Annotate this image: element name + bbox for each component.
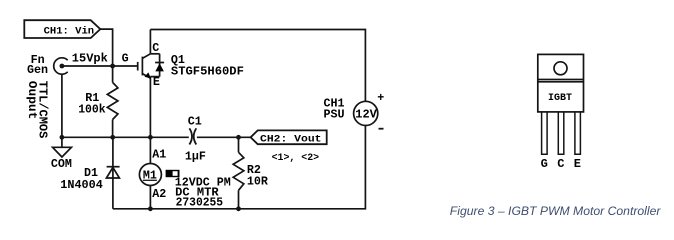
probe flag CH1: Vin — [24, 20, 100, 38]
capacitor C1 — [189, 128, 192, 144]
svg-text:2730255: 2730255 — [176, 195, 224, 209]
svg-text:CH2: Vout: CH2: Vout — [260, 134, 322, 146]
svg-text:PSU: PSU — [324, 107, 345, 121]
IGBT legs — [542, 112, 581, 154]
wire: Q1 emitter lead down to rail — [149, 77, 151, 138]
wire: CH1 flag tip to gate junction — [100, 29, 112, 66]
resistor R1 zigzag — [107, 82, 118, 119]
svg-text:G: G — [541, 157, 548, 171]
svg-text:CH1: Vin: CH1: Vin — [44, 26, 95, 38]
svg-text:15Vpk: 15Vpk — [72, 52, 108, 66]
transistor Q1 (IGBT) — [138, 54, 164, 78]
svg-text:C: C — [557, 157, 564, 171]
svg-text:IGBT: IGBT — [548, 92, 572, 103]
resistor R2 zigzag — [233, 152, 244, 190]
svg-text:A2: A2 — [152, 187, 166, 201]
node gate junction — [110, 64, 115, 69]
ground COM — [53, 147, 72, 157]
node R2 bottom junction — [236, 206, 241, 211]
wire: D1 branch vertical — [112, 137, 114, 209]
wire: top rail from Q1 collector to right rail down to PSU + — [150, 30, 365, 102]
svg-text:Gen: Gen — [27, 63, 48, 77]
svg-text:+: + — [377, 91, 384, 105]
svg-text:E: E — [153, 75, 160, 89]
node R1/D1 junction — [110, 135, 115, 140]
wire: Q1 collector lead — [149, 30, 151, 54]
wire: emitter rail right of C1 to CH2 flag tip — [197, 136, 251, 138]
svg-text:COM: COM — [51, 157, 72, 171]
wire: R1 bottom lead — [112, 120, 114, 138]
node emitter/M1 junction — [148, 135, 153, 140]
svg-text:C: C — [152, 41, 159, 55]
svg-text:1µF: 1µF — [185, 150, 206, 164]
wire: R2 top lead — [238, 137, 240, 152]
wire: PSU - down to bottom rail, bottom rail to left — [113, 126, 366, 209]
IGBT package TO-220 — [538, 54, 584, 112]
wire: R2 bottom lead — [238, 190, 240, 209]
svg-text:G: G — [122, 52, 129, 66]
probe flag CH2: Vout — [251, 130, 327, 144]
motor M1 — [139, 164, 161, 186]
function generator Fn Gen — [54, 58, 68, 74]
svg-text:A1: A1 — [152, 148, 166, 162]
svg-text:STGF5H60DF: STGF5H60DF — [171, 65, 244, 79]
wire: emitter rail left of C1 — [62, 136, 189, 138]
motor icon — [166, 170, 180, 177]
svg-text:E: E — [574, 157, 581, 171]
svg-text:1N4004: 1N4004 — [60, 178, 103, 192]
svg-text:10R: 10R — [247, 175, 268, 189]
node C1/R2 junction — [236, 135, 241, 140]
wire: Fn Gen down to COM — [61, 74, 63, 147]
node COM junction — [60, 135, 65, 140]
svg-text:C1: C1 — [188, 114, 202, 128]
svg-text:M1: M1 — [143, 169, 157, 183]
wire: M1 top lead — [149, 137, 151, 163]
wire: R1 top lead — [112, 66, 114, 82]
caption — [450, 204, 661, 218]
diode D1 — [107, 166, 120, 168]
node M1 bottom junction — [148, 206, 153, 211]
minus sign — [379, 128, 384, 130]
svg-text:100k: 100k — [78, 102, 106, 116]
svg-text:12V: 12V — [355, 108, 377, 122]
svg-text:<1>, <2>: <1>, <2> — [272, 152, 320, 164]
power supply CH1 PSU 12V — [354, 101, 378, 125]
wire: gate wire from Fn Gen to Q1 gate — [62, 65, 138, 67]
wire: M1 bottom lead — [149, 185, 151, 208]
svg-text:Ouput: Ouput — [25, 81, 39, 120]
